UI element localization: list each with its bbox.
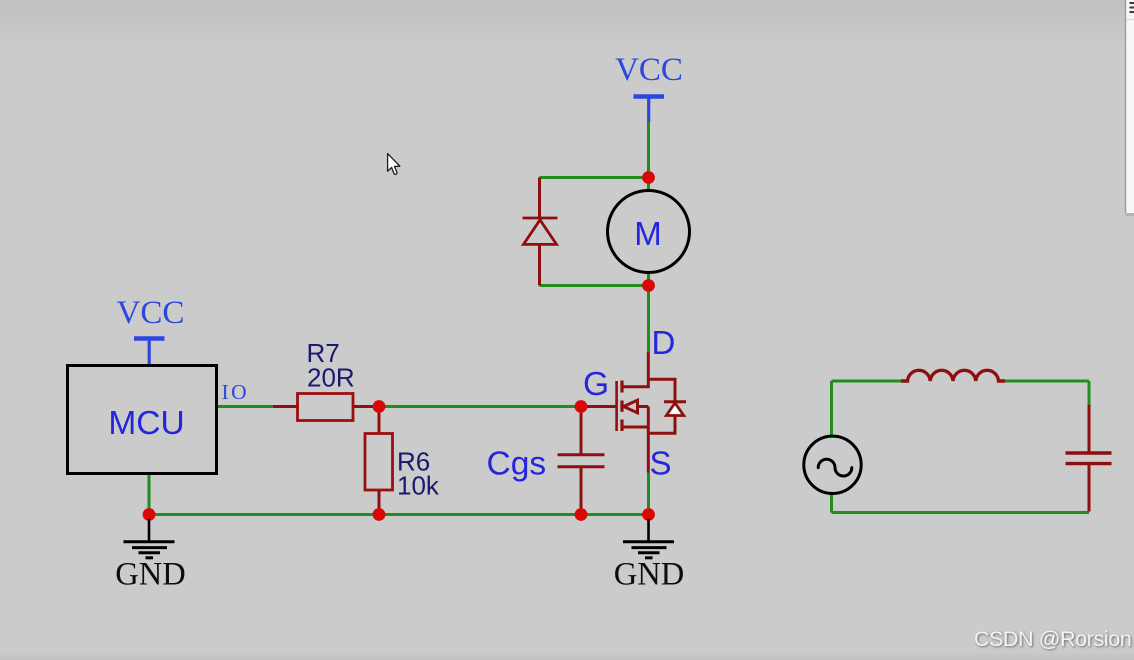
svg-text:S: S xyxy=(650,445,672,482)
source connection xyxy=(622,426,648,429)
resistor R7 body xyxy=(298,394,354,421)
gate bar xyxy=(615,381,618,431)
svg-text:G: G xyxy=(583,366,609,403)
wire: R7 node to MOSFET gate node xyxy=(379,405,581,408)
drain connection xyxy=(622,352,648,387)
watermark xyxy=(974,627,1131,652)
wire: left vertical above source xyxy=(830,381,833,436)
node: Cgs ground xyxy=(575,508,588,521)
wire: freewheel diode bottom branch xyxy=(540,284,649,287)
ground symbol (right) xyxy=(623,519,674,558)
capacitor Cgs leads xyxy=(580,407,583,455)
wire: bottom ground bus xyxy=(149,513,649,516)
wire: top right segment xyxy=(1005,380,1089,383)
node: R6 ground xyxy=(373,508,386,521)
node: source ground xyxy=(642,508,655,521)
body arrow xyxy=(624,400,638,413)
AC sine mark xyxy=(818,459,852,476)
svg-text:MCU: MCU xyxy=(108,405,184,442)
body/source vertical xyxy=(647,407,650,473)
wire: MCU IO to R7 xyxy=(217,405,274,408)
svg-text:10k: 10k xyxy=(397,471,440,501)
motor M1 circle xyxy=(608,191,690,273)
ground symbol (left) xyxy=(124,519,175,558)
wire: left vertical below source xyxy=(830,493,833,513)
diode D leads xyxy=(538,178,541,219)
body diode bar xyxy=(664,400,686,403)
wire: motor bottom lead xyxy=(647,272,650,286)
body diode triangle xyxy=(666,403,683,416)
svg-text:20R: 20R xyxy=(307,363,355,393)
MOSFET Q1 gate lead xyxy=(581,405,616,408)
resistor R6 leads xyxy=(378,407,381,434)
resistor R7 leads xyxy=(273,405,298,408)
wire: MCU GND drop xyxy=(148,474,151,515)
svg-text:D: D xyxy=(652,324,676,361)
svg-text:VCC: VCC xyxy=(615,52,683,88)
node: VCC/motor/diode xyxy=(642,171,655,184)
wire: VCC stem to motor node xyxy=(647,121,650,178)
svg-text:VCC: VCC xyxy=(117,295,185,331)
wire: top left segment xyxy=(832,380,903,383)
mouse cursor xyxy=(388,154,400,175)
capacitor Cgs plates xyxy=(558,455,605,467)
capacitor C1 plates xyxy=(1066,453,1112,464)
MCU U1 box xyxy=(68,366,217,474)
panel icon xyxy=(1130,3,1134,12)
body diode loop xyxy=(648,379,675,402)
AC source V1 xyxy=(804,436,861,493)
inductor L1 xyxy=(901,370,1005,381)
node: MCU ground xyxy=(143,508,156,521)
power flag VCC (top) symbol xyxy=(634,97,665,123)
svg-text:IO: IO xyxy=(222,380,250,404)
svg-text:GND: GND xyxy=(614,557,684,593)
wire: right vertical top xyxy=(1088,381,1091,405)
MOSFET Q1 symbol xyxy=(617,352,686,473)
side panel strip xyxy=(1126,0,1134,216)
resistor R6 body xyxy=(365,434,393,491)
wire: freewheel diode top branch xyxy=(540,176,649,179)
svg-text:GND: GND xyxy=(115,557,185,593)
wire: MOSFET source to ground node xyxy=(647,473,650,515)
diode D (freewheel) xyxy=(523,218,558,244)
node: R7/R6/gate net xyxy=(373,400,386,413)
svg-text:M: M xyxy=(634,215,662,252)
wire: motor to MOSFET drain xyxy=(647,286,650,353)
wire: bottom bus xyxy=(832,511,1090,514)
node: gate/Cgs xyxy=(575,400,588,413)
node: motor/diode/drain xyxy=(642,279,655,292)
wire: motor top lead xyxy=(647,178,650,191)
capacitor C1 leads xyxy=(1088,405,1091,453)
power flag VCC (MCU) symbol xyxy=(134,339,165,366)
channel segments xyxy=(620,381,623,393)
svg-text:Cgs: Cgs xyxy=(487,446,547,483)
